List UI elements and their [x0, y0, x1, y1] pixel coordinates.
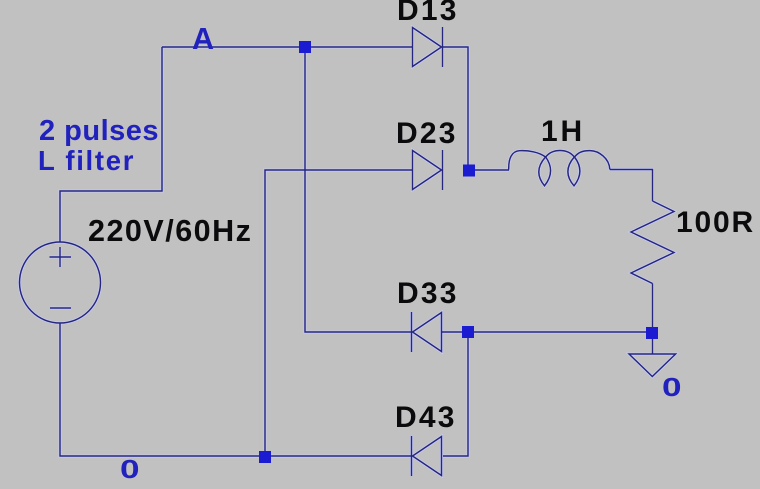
junction D33/D43 — [462, 326, 474, 338]
junction resistor/ground — [646, 327, 658, 339]
label D33 — [397, 279, 459, 309]
net label 0 bottom — [120, 456, 140, 482]
label 220V/60Hz — [88, 216, 252, 247]
label 1H — [541, 117, 585, 147]
label D13 — [397, 0, 459, 26]
label D23 — [396, 119, 458, 149]
label 100R — [676, 208, 755, 238]
label D43 — [395, 403, 457, 433]
label 2 pulses — [39, 117, 159, 146]
junction D13/D23 cathodes — [463, 165, 475, 177]
label L filter — [38, 147, 135, 175]
junction node A top — [299, 41, 311, 53]
net label A — [192, 24, 214, 55]
main line art pass — [20, 27, 676, 476]
junction bottom node 0 — [259, 451, 271, 463]
halo pass — [20, 27, 676, 476]
net label 0 ground — [662, 374, 682, 400]
